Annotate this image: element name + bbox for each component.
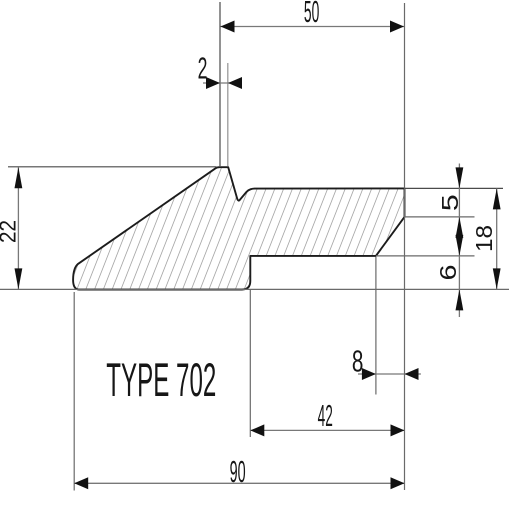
dimension 2 line bbox=[203, 82, 242, 84]
extension line chamfer bottom x=375.9 bbox=[375, 257, 377, 395]
extension line notch left x=220 bbox=[219, 2, 221, 166]
extension line top left y=166.8 bbox=[8, 166, 217, 168]
dimension 18 bottom arrow bbox=[493, 268, 501, 289]
svg-text:6: 6 bbox=[435, 265, 461, 281]
extension line notch right x=227.8 bbox=[227, 63, 229, 166]
dimension 50 line bbox=[221, 26, 405, 28]
dimension 5 bottom arrow bbox=[456, 217, 464, 238]
dimension 22 top arrow bbox=[15, 167, 23, 188]
dimension 90 line bbox=[74, 482, 404, 484]
extension line chamfer top y=216.9 bbox=[405, 216, 475, 218]
dimension 42 left arrow bbox=[250, 424, 264, 436]
svg-text:90: 90 bbox=[230, 455, 246, 489]
extension line right bottom y=255.9 bbox=[376, 255, 475, 257]
dimension 8 left arrow bbox=[362, 368, 376, 380]
dimension 22 line bbox=[17, 168, 19, 290]
dimension 6 bottom arrow bbox=[456, 289, 464, 310]
dimension 50 left arrow bbox=[221, 21, 235, 33]
svg-text:2: 2 bbox=[198, 52, 208, 86]
svg-text:22: 22 bbox=[0, 220, 21, 243]
dimension 5-6 vertical line bbox=[458, 164, 460, 318]
svg-text:42: 42 bbox=[318, 399, 333, 433]
dimension 6 top arrow bbox=[456, 235, 464, 256]
dimension 50 right arrow bbox=[390, 21, 404, 33]
dimension 42 right arrow bbox=[391, 424, 405, 436]
svg-text:50: 50 bbox=[304, 0, 319, 29]
dimension 22 bottom arrow bbox=[15, 268, 23, 289]
extension line top surface right y=188.4 bbox=[405, 187, 504, 189]
extension line left end x=74.2 bbox=[73, 292, 75, 491]
extension line bottom plane y=289.4 bbox=[0, 288, 509, 290]
dimension 8 line bbox=[358, 373, 421, 375]
dimension 8 right arrow bbox=[405, 368, 419, 380]
svg-text:5: 5 bbox=[437, 194, 463, 211]
dimension 90 right arrow bbox=[391, 477, 405, 489]
dimension 2 right arrow bbox=[228, 77, 242, 89]
hatch bbox=[20, 150, 484, 300]
profile outline bbox=[73, 167, 404, 289]
dimension 5 top arrow bbox=[456, 167, 464, 188]
dimension 18 top arrow bbox=[493, 188, 501, 209]
svg-text:8: 8 bbox=[352, 344, 364, 378]
svg-text:18: 18 bbox=[471, 225, 497, 252]
dimension 2 left arrow bbox=[206, 77, 220, 89]
dimension 18 line bbox=[496, 188, 498, 289]
dimension 42 line bbox=[250, 429, 404, 431]
svg-text:TYPE 702: TYPE 702 bbox=[106, 354, 216, 407]
extension line right edge x=404.5 bbox=[404, 3, 406, 490]
dimension 90 left arrow bbox=[74, 477, 88, 489]
extension line step x=250.3 bbox=[249, 290, 251, 437]
